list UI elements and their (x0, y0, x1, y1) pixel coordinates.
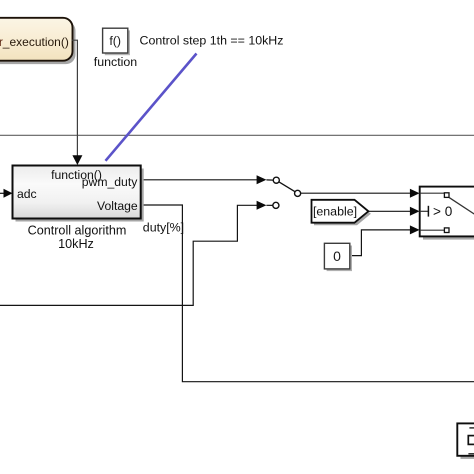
switch inner port square bottom (444, 228, 449, 233)
arrowhead switch block input 2 (410, 207, 420, 216)
arrowhead switch block input 3 (410, 225, 420, 234)
From tag [enable] (312, 200, 369, 223)
svg-text:10kHz: 10kHz (58, 237, 94, 251)
svg-text:adc: adc (17, 187, 37, 201)
function caller block (cream, cut at left edge) (0, 18, 73, 61)
wire: manual switch output to switch block input 1 (301, 192, 411, 194)
manual switch contact circle input 2 (open) (273, 202, 279, 208)
wire: long horizontal gray line y=135 (0, 134, 474, 136)
switch block shadow (bottom) (423, 237, 474, 240)
display inner value box (468, 436, 474, 445)
function caller block shadow (0, 21, 76, 64)
svg-text:function: function (94, 55, 138, 69)
constant 0 block (324, 243, 349, 269)
wire stub arrow to circle 1 (266, 179, 273, 181)
manual switch contact circle output (295, 190, 301, 196)
svg-text:f(): f() (109, 34, 121, 48)
display inner top tick (469, 427, 474, 429)
svg-text:> 0: > 0 (433, 204, 453, 219)
switch block (cut at right edge) (420, 187, 474, 237)
display block (cut at corner) (457, 423, 474, 455)
Controll algorithm subsystem block (13, 166, 141, 219)
svg-text:Control step 1th == 10kHz: Control step 1th == 10kHz (140, 34, 284, 48)
wire: feedback line from left edge to manual switch input 2 (0, 205, 258, 305)
arrowhead switch block input 1 (410, 189, 420, 198)
switch inner line input 1 (420, 192, 445, 194)
arrowhead manual switch input 2 (257, 201, 267, 210)
wire: pwm_duty output to manual switch input 1 (141, 179, 258, 181)
f() trigger block (103, 28, 128, 53)
From tag [enable] shadow (314, 202, 371, 225)
switch inner line input 2 (420, 210, 428, 212)
arrowhead manual switch input 1 (257, 175, 267, 184)
wire stub arrow to circle 3 (266, 204, 272, 206)
annotation connector line (blue) (106, 54, 197, 161)
svg-text:Voltage: Voltage (97, 199, 138, 213)
switch inner port square top (444, 193, 449, 198)
manual switch lever (diagonal) (279, 182, 295, 192)
wire: constant 0 output up to switch block input 3 (350, 230, 411, 256)
manual switch contact circle input 1 (273, 177, 279, 183)
arrowhead into trigger port (72, 155, 82, 165)
switch threshold tick (427, 206, 429, 217)
svg-text:r_execution(): r_execution() (0, 35, 69, 49)
display inner bottom tick (468, 453, 474, 455)
wire: Voltage output goes right then down then right to canvas edge (141, 205, 474, 382)
svg-text:Controll algorithm: Controll algorithm (28, 224, 127, 238)
wire: [enable] From tag to switch block input 2 (368, 210, 410, 212)
f() trigger block shadow (105, 30, 130, 55)
wire: adc input from left edge (0, 192, 5, 194)
switch inner line input 3 (420, 229, 445, 231)
svg-text:0: 0 (333, 248, 341, 264)
svg-text:[enable]: [enable] (313, 205, 357, 219)
switch lever diagonal (449, 198, 474, 215)
svg-text:pwm_duty: pwm_duty (82, 175, 138, 189)
arrowhead into adc port (4, 189, 13, 198)
Controll algorithm subsystem shadow (16, 169, 144, 222)
constant 0 block shadow (327, 246, 352, 272)
wire: trigger stub from function caller to vertical drop (72, 40, 78, 156)
display block shadow (461, 456, 474, 459)
svg-text:duty[%]: duty[%] (143, 221, 184, 235)
